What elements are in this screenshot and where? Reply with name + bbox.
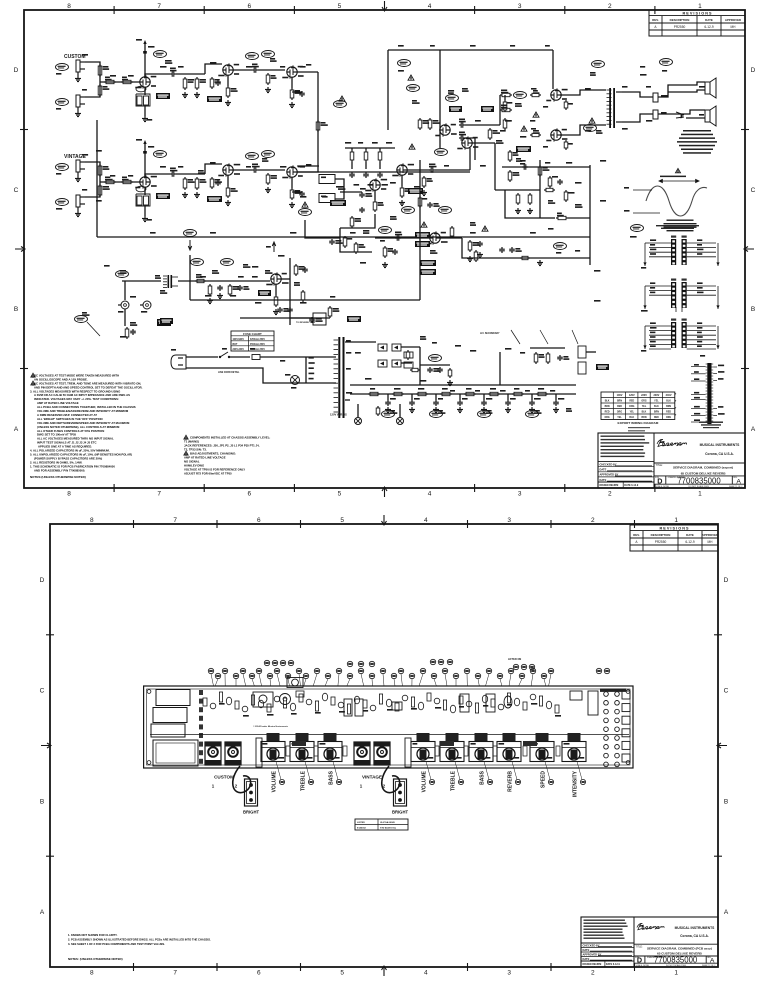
svg-text:100V: 100V bbox=[617, 394, 623, 397]
svg-text:SCALE: NONE: SCALE: NONE bbox=[636, 964, 650, 967]
svg-text:6: 6 bbox=[247, 491, 251, 498]
svg-text:3: 3 bbox=[518, 491, 522, 498]
svg-text:8: 8 bbox=[67, 3, 71, 10]
svg-text:LIFTED ON: LIFTED ON bbox=[508, 658, 521, 661]
svg-text:SHEET 2 OF 2: SHEET 2 OF 2 bbox=[702, 965, 716, 967]
svg-text:DESCRIPTION: DESCRIPTION bbox=[651, 533, 671, 537]
svg-text:120V WIRING: 120V WIRING bbox=[330, 413, 347, 417]
svg-text:BRIGHT: BRIGHT bbox=[392, 810, 408, 815]
svg-text:5: 5 bbox=[338, 3, 342, 10]
svg-text:220V: 220V bbox=[641, 394, 647, 397]
svg-text:RED: RED bbox=[654, 417, 659, 419]
svg-text:A: A bbox=[724, 909, 729, 916]
svg-text:ORG: ORG bbox=[604, 417, 609, 419]
svg-text:LISTED: LISTED bbox=[357, 822, 365, 824]
svg-text:YEL: YEL bbox=[617, 417, 622, 419]
svg-text:SERVICE DIAGRAM, COMBINED (exp: SERVICE DIAGRAM, COMBINED (export) bbox=[673, 466, 733, 470]
svg-text:5: 5 bbox=[340, 517, 344, 524]
svg-text:2: 2 bbox=[591, 517, 595, 524]
svg-text:3: 3 bbox=[507, 517, 511, 524]
svg-text:B: B bbox=[724, 798, 728, 805]
svg-text:8: 8 bbox=[90, 970, 94, 977]
svg-text:YEL: YEL bbox=[654, 401, 659, 403]
svg-text:1: 1 bbox=[698, 3, 702, 10]
svg-text:MH: MH bbox=[708, 540, 714, 544]
svg-text:240V: 240V bbox=[666, 394, 672, 397]
svg-text:4: 4 bbox=[428, 3, 432, 10]
svg-text:BRIGHT: BRIGHT bbox=[243, 810, 259, 815]
svg-text:8: 8 bbox=[67, 491, 71, 498]
svg-text:B: B bbox=[14, 306, 18, 313]
svg-text:65 CUSTOM DELUXE REVERB: 65 CUSTOM DELUXE REVERB bbox=[681, 471, 727, 475]
svg-text:TO REVERB TANK: TO REVERB TANK bbox=[296, 321, 316, 324]
svg-text:4: 4 bbox=[428, 491, 432, 498]
svg-text:TREBLE: TREBLE bbox=[450, 770, 456, 791]
svg-text:DATE: DATE bbox=[705, 18, 713, 22]
svg-text:DATE: DATE bbox=[583, 957, 590, 961]
svg-text:DRAWN RE/JRM: DRAWN RE/JRM bbox=[583, 963, 602, 966]
svg-text:APPROVED: APPROVED bbox=[725, 18, 741, 22]
svg-text:FUSE CHART: FUSE CHART bbox=[243, 332, 262, 336]
svg-text:6-12-9: 6-12-9 bbox=[704, 25, 713, 29]
svg-text:BLK: BLK bbox=[666, 401, 671, 403]
svg-text:BASS: BASS bbox=[479, 770, 485, 785]
svg-text:4: 4 bbox=[424, 517, 428, 524]
svg-text:6: 6 bbox=[257, 517, 261, 524]
svg-text:5: 5 bbox=[340, 970, 344, 977]
svg-text:DATE: DATE bbox=[583, 948, 590, 952]
svg-text:ORG: ORG bbox=[666, 417, 671, 419]
svg-text:DATE 6-12-9: DATE 6-12-9 bbox=[624, 484, 639, 487]
svg-text:TITLE:: TITLE: bbox=[636, 946, 644, 949]
svg-text:ORG: ORG bbox=[641, 401, 646, 403]
svg-text:7: 7 bbox=[157, 491, 161, 498]
svg-text:RED: RED bbox=[605, 412, 610, 414]
svg-text:220V-240V: 220V-240V bbox=[233, 348, 245, 351]
svg-text:BRN: BRN bbox=[642, 417, 647, 419]
svg-text:RED: RED bbox=[617, 406, 622, 408]
svg-text:AND FOR ASSEMBLY P/N 770088500: AND FOR ASSEMBLY P/N 7700885000. bbox=[34, 468, 85, 472]
svg-text:1: 1 bbox=[674, 970, 678, 977]
svg-text:DRAWN RE/JRM: DRAWN RE/JRM bbox=[600, 484, 619, 487]
svg-text:ORG: ORG bbox=[629, 406, 634, 408]
svg-text:8: 8 bbox=[90, 517, 94, 524]
svg-text:MH: MH bbox=[731, 25, 737, 29]
svg-text:MUSICAL INSTRUMENTS: MUSICAL INSTRUMENTS bbox=[700, 443, 740, 447]
svg-text:SERVICE DIAGRAM, COMBINED (PCB: SERVICE DIAGRAM, COMBINED (PCB assy) bbox=[647, 946, 712, 950]
svg-text:R E V I S I O N S: R E V I S I O N S bbox=[682, 11, 712, 15]
svg-text:BRN: BRN bbox=[666, 406, 671, 408]
svg-text:NOTES: (UNLESS OTHERWISE NOT: NOTES: (UNLESS OTHERWISE NOTED) bbox=[68, 957, 123, 961]
svg-text:3: 3 bbox=[507, 970, 511, 977]
svg-text:TITLE:: TITLE: bbox=[656, 464, 664, 467]
svg-text:120V: 120V bbox=[629, 394, 635, 397]
svg-text:RED: RED bbox=[666, 412, 671, 414]
svg-text:2: 2 bbox=[608, 491, 612, 498]
svg-text:A: A bbox=[40, 909, 45, 916]
svg-text:BRN: BRN bbox=[654, 412, 659, 414]
svg-text:D: D bbox=[724, 577, 729, 584]
svg-text:R E V I S I O N S: R E V I S I O N S bbox=[659, 526, 689, 530]
svg-text:1. KNOBS NOT SHOWN FOR CLARITY: 1. KNOBS NOT SHOWN FOR CLARITY. bbox=[68, 933, 118, 937]
svg-text:BLK: BLK bbox=[654, 406, 659, 408]
svg-text:VOLUME: VOLUME bbox=[421, 770, 427, 792]
svg-text:© 2014 Fender Musical Instrum: © 2014 Fender Musical Instruments bbox=[253, 725, 289, 728]
svg-text:A: A bbox=[654, 25, 657, 29]
svg-text:VOLUME: VOLUME bbox=[271, 770, 277, 792]
svg-text:B: B bbox=[40, 798, 44, 805]
svg-text:CHECKED BY: CHECKED BY bbox=[583, 943, 600, 947]
svg-text:INTENSITY: INTENSITY bbox=[572, 770, 578, 797]
svg-text:7: 7 bbox=[173, 970, 177, 977]
svg-text:DATE: DATE bbox=[600, 468, 607, 472]
svg-text:100V/120V: 100V/120V bbox=[233, 339, 245, 341]
svg-text:ORG: ORG bbox=[617, 412, 622, 414]
svg-text:A: A bbox=[751, 426, 756, 433]
svg-text:F500mA 250V: F500mA 250V bbox=[250, 343, 265, 346]
svg-text:A: A bbox=[14, 426, 19, 433]
svg-text:7: 7 bbox=[157, 3, 161, 10]
svg-text:BRN: BRN bbox=[617, 401, 622, 403]
svg-text:MUSICAL INSTRUMENTS: MUSICAL INSTRUMENTS bbox=[675, 926, 715, 930]
svg-text:EXPORT WIRING DIAGRAM: EXPORT WIRING DIAGRAM bbox=[618, 421, 659, 425]
svg-text:REVERB: REVERB bbox=[507, 771, 513, 792]
svg-text:TREBLE: TREBLE bbox=[300, 770, 306, 791]
svg-text:D: D bbox=[751, 67, 756, 74]
svg-text:PR2550: PR2550 bbox=[655, 540, 667, 544]
svg-text:C: C bbox=[14, 187, 19, 194]
svg-text:4: 4 bbox=[424, 970, 428, 977]
svg-text:BASS: BASS bbox=[328, 770, 334, 785]
svg-text:A: A bbox=[635, 540, 638, 544]
svg-text:Corona, CA U.S.A.: Corona, CA U.S.A. bbox=[680, 934, 709, 938]
svg-text:REV.: REV. bbox=[633, 533, 640, 537]
svg-text:ADJUST R72 FOR 60mVDC AT TP55: ADJUST R72 FOR 60mVDC AT TP55 bbox=[184, 472, 232, 476]
svg-text:STD AUDIO EQ: STD AUDIO EQ bbox=[380, 827, 396, 830]
svg-text:REV.: REV. bbox=[652, 18, 659, 22]
svg-text:6-12-9: 6-12-9 bbox=[685, 540, 694, 544]
svg-text:YEL: YEL bbox=[630, 412, 635, 414]
svg-text:DESCRIPTION: DESCRIPTION bbox=[670, 18, 690, 22]
svg-text:DATE 6-12-9: DATE 6-12-9 bbox=[606, 963, 621, 966]
svg-text:1: 1 bbox=[674, 517, 678, 524]
svg-text:H.V. SECONDARY: H.V. SECONDARY bbox=[480, 332, 500, 335]
svg-text:C: C bbox=[40, 688, 45, 695]
svg-text:6: 6 bbox=[247, 3, 251, 10]
svg-text:NOTES:(UNLESS OTHERWISE NOTED): NOTES:(UNLESS OTHERWISE NOTED) bbox=[30, 475, 86, 479]
svg-text:DATE: DATE bbox=[600, 478, 607, 482]
svg-text:6: 6 bbox=[257, 970, 261, 977]
svg-text:CUSTOM: CUSTOM bbox=[214, 775, 234, 780]
svg-text:2: 2 bbox=[608, 3, 612, 10]
svg-text:DO NOT SCALE DWG: DO NOT SCALE DWG bbox=[689, 485, 710, 488]
svg-text:2. PCB ASSEMBLY SHOWN AS ILLUS: 2. PCB ASSEMBLY SHOWN AS ILLUSTRATED BEF… bbox=[68, 938, 211, 942]
svg-text:DATE: DATE bbox=[686, 533, 694, 537]
svg-text:E146302: E146302 bbox=[357, 827, 367, 830]
svg-text:VINTAGE: VINTAGE bbox=[362, 775, 382, 780]
svg-text:PR2550: PR2550 bbox=[674, 25, 686, 29]
svg-text:UL/CSA 60065: UL/CSA 60065 bbox=[380, 821, 396, 824]
svg-text:APPROVED: APPROVED bbox=[702, 533, 718, 537]
svg-text:1: 1 bbox=[360, 784, 363, 789]
svg-text:B: B bbox=[751, 306, 755, 313]
svg-text:YEL: YEL bbox=[642, 406, 647, 408]
svg-text:BLK: BLK bbox=[629, 417, 634, 419]
svg-text:BOT: BOT bbox=[233, 344, 238, 346]
svg-text:3: 3 bbox=[518, 3, 522, 10]
svg-text:SCALE: NONE: SCALE: NONE bbox=[656, 485, 670, 488]
svg-text:SPEED: SPEED bbox=[540, 771, 546, 788]
svg-text:Corona, CA U.S.A.: Corona, CA U.S.A. bbox=[705, 452, 734, 456]
svg-text:1: 1 bbox=[212, 784, 215, 789]
svg-text:C: C bbox=[751, 187, 756, 194]
svg-text:2: 2 bbox=[235, 784, 238, 789]
svg-text:LINE CORD DETAIL: LINE CORD DETAIL bbox=[218, 371, 240, 374]
svg-text:BRN: BRN bbox=[605, 406, 610, 408]
svg-text:F250mA 250V: F250mA 250V bbox=[250, 338, 265, 341]
svg-text:DO NOT SCALE DWG: DO NOT SCALE DWG bbox=[666, 964, 687, 967]
svg-text:D: D bbox=[40, 577, 45, 584]
svg-text:BLK: BLK bbox=[605, 401, 610, 403]
svg-text:3. SEE SHEET 1 OF 2 FOR PCBA C: 3. SEE SHEET 1 OF 2 FOR PCBA COMPONENTS … bbox=[68, 942, 165, 946]
svg-text:SHEET 1 OF 2: SHEET 1 OF 2 bbox=[729, 486, 743, 488]
svg-text:COMPONENTS INSTALLED AT CHASSI: COMPONENTS INSTALLED AT CHASSIS ASSEMBLY… bbox=[190, 436, 270, 440]
svg-text:CHECKED BY: CHECKED BY bbox=[600, 463, 617, 467]
svg-text:5: 5 bbox=[338, 491, 342, 498]
svg-text:1: 1 bbox=[698, 491, 702, 498]
svg-text:230V: 230V bbox=[653, 394, 659, 397]
svg-text:7: 7 bbox=[173, 517, 177, 524]
svg-text:2: 2 bbox=[591, 970, 595, 977]
svg-text:D: D bbox=[14, 67, 19, 74]
svg-text:BLK: BLK bbox=[642, 412, 647, 414]
svg-text:C: C bbox=[724, 688, 729, 695]
svg-text:RED: RED bbox=[629, 401, 634, 403]
